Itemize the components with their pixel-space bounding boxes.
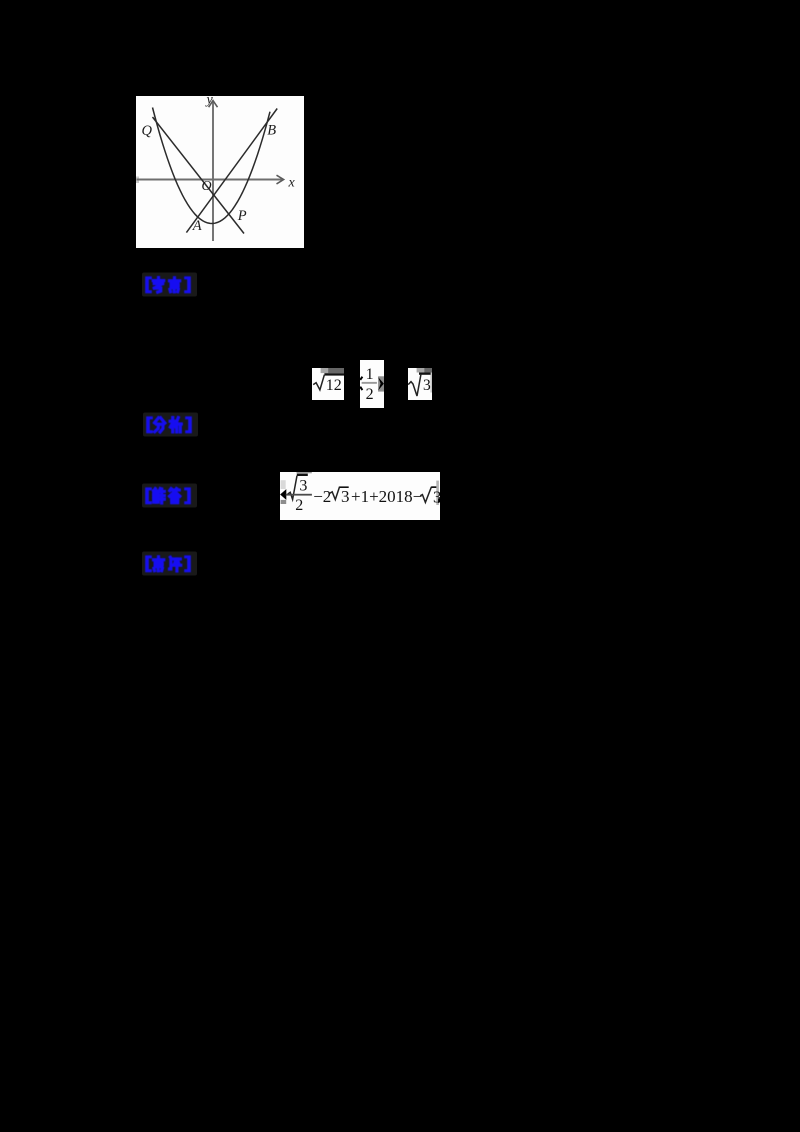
svg-text:B: B	[267, 122, 276, 138]
svg-text:2: 2	[366, 386, 374, 403]
svg-text:P: P	[237, 208, 247, 224]
svg-text:+1+2018−: +1+2018−	[351, 487, 422, 506]
svg-text:y: y	[205, 96, 214, 108]
svg-text:3: 3	[423, 377, 431, 394]
svg-text:3: 3	[341, 487, 350, 506]
svg-text:O: O	[202, 179, 212, 194]
svg-text:A: A	[192, 218, 202, 234]
svg-text:−2: −2	[313, 487, 331, 506]
svg-text:3: 3	[433, 488, 440, 507]
svg-text:12: 12	[326, 377, 342, 394]
svg-text:2: 2	[295, 497, 303, 514]
svg-text:x: x	[288, 176, 296, 191]
svg-text:3: 3	[299, 478, 307, 495]
svg-text:1: 1	[366, 366, 374, 383]
svg-text:Q: Q	[142, 123, 153, 139]
